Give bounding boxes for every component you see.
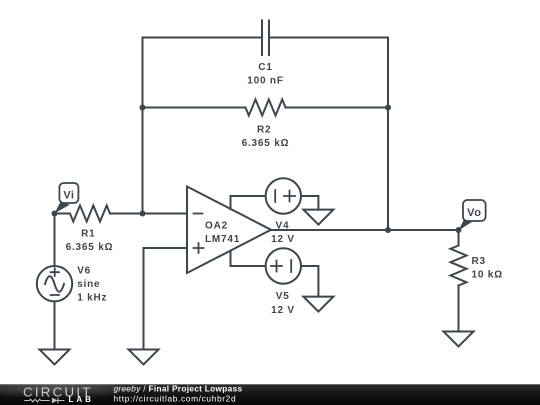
svg-text:R3: R3 bbox=[472, 256, 486, 267]
node Vo dot bbox=[456, 227, 462, 233]
wire op-amp V+ tap to V4 bbox=[231, 196, 266, 209]
ground (V6) bbox=[40, 350, 70, 365]
svg-text:V6: V6 bbox=[77, 265, 91, 276]
wire R1 to op-amp inverting input bbox=[110, 213, 187, 215]
voltage source V5 bbox=[266, 248, 301, 283]
svg-text:V4: V4 bbox=[275, 220, 289, 231]
wire R2 right bbox=[286, 107, 389, 109]
node Vo flag bbox=[459, 200, 486, 231]
wire R3 bottom bbox=[458, 286, 460, 332]
svg-text:1 kHz: 1 kHz bbox=[77, 293, 107, 304]
svg-text:C1: C1 bbox=[258, 62, 272, 73]
svg-text:Vo: Vo bbox=[467, 207, 481, 219]
svg-text:12 V: 12 V bbox=[271, 305, 295, 316]
svg-text:100 nF: 100 nF bbox=[247, 76, 283, 87]
wire op-amp V- tap to V5 bbox=[231, 251, 266, 266]
svg-text:6.365 kΩ: 6.365 kΩ bbox=[242, 138, 290, 149]
svg-text:R2: R2 bbox=[257, 125, 271, 136]
ground (non-inverting input) bbox=[129, 350, 159, 365]
wire V5 to ground bbox=[301, 266, 318, 297]
svg-text:sine: sine bbox=[77, 279, 100, 290]
logo diode bbox=[52, 398, 58, 404]
op-amp OA2 triangle bbox=[187, 187, 271, 274]
node junction inverting input bbox=[140, 211, 146, 217]
svg-text:6.365 kΩ: 6.365 kΩ bbox=[66, 242, 114, 253]
voltage source V6 bbox=[37, 266, 72, 301]
op-amp OA2 plus pin glyph bbox=[194, 243, 204, 253]
ground (V4) bbox=[303, 210, 333, 225]
wire V6 bottom bbox=[54, 301, 56, 349]
svg-text:OA2: OA2 bbox=[205, 221, 228, 232]
svg-text:12 V: 12 V bbox=[271, 234, 295, 245]
ground (V5) bbox=[303, 297, 333, 312]
node junction feedback/R2 right bbox=[385, 105, 391, 111]
svg-text:greeby / Final Project Lowpass: greeby / Final Project Lowpass bbox=[114, 383, 243, 393]
wire V4 to ground bbox=[301, 196, 318, 210]
svg-text:LAB: LAB bbox=[69, 395, 94, 404]
node Vi flag bbox=[55, 183, 79, 213]
ground (R3) bbox=[444, 332, 474, 347]
wire R2 left bbox=[143, 107, 246, 109]
wire V6 top bbox=[54, 214, 56, 267]
wire top feedback horizontal (left of C1) bbox=[143, 37, 262, 39]
node junction output/right feedback bbox=[385, 227, 391, 233]
svg-text:LM741: LM741 bbox=[205, 234, 240, 245]
capacitor C1 bbox=[262, 21, 269, 56]
svg-text:10 kΩ: 10 kΩ bbox=[472, 269, 503, 280]
wire R3 top bbox=[458, 230, 460, 246]
resistor R3 bbox=[451, 246, 467, 286]
op-amp OA2 minus pin glyph bbox=[194, 213, 203, 215]
wire left feedback vertical bbox=[142, 38, 144, 214]
node junction feedback/R2 left bbox=[140, 105, 146, 111]
wire Vi to R1 bbox=[55, 213, 71, 215]
junction node dots bbox=[52, 105, 462, 234]
wire right feedback vertical bbox=[387, 38, 389, 231]
logo resistor zigzag bbox=[24, 399, 50, 402]
wire non-inverting input bbox=[144, 248, 188, 350]
svg-text:Vi: Vi bbox=[63, 189, 74, 201]
svg-text:R1: R1 bbox=[81, 228, 95, 239]
wire top feedback horizontal (right of C1) bbox=[270, 37, 389, 39]
resistor R1 bbox=[70, 206, 110, 222]
node Vi dot bbox=[52, 211, 58, 217]
wire op-amp output bbox=[271, 229, 459, 231]
resistor R2 bbox=[246, 100, 286, 116]
svg-text:http://circuitlab.com/cuhbr2d: http://circuitlab.com/cuhbr2d bbox=[114, 394, 237, 404]
voltage source V4 bbox=[266, 178, 301, 213]
footer bar bbox=[0, 381, 540, 405]
svg-text:V5: V5 bbox=[276, 291, 290, 302]
